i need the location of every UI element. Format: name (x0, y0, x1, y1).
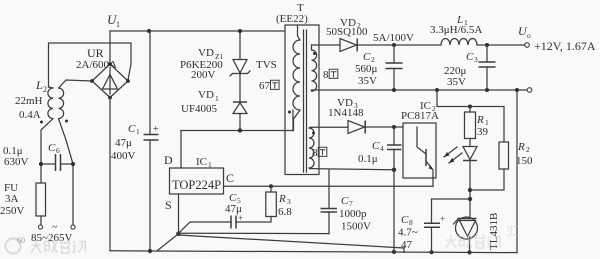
svg-text:8: 8 (323, 69, 329, 81)
svg-text:o: o (527, 31, 531, 40)
svg-text:UR: UR (87, 46, 104, 60)
svg-text:VD: VD (198, 89, 214, 101)
svg-text:IC: IC (196, 156, 207, 168)
svg-text:7: 7 (349, 199, 353, 208)
svg-text:4: 4 (380, 144, 384, 153)
svg-text:R: R (278, 193, 286, 205)
svg-text:1N4148: 1N4148 (328, 107, 364, 119)
svg-text:C: C (128, 123, 136, 135)
svg-text:67: 67 (259, 80, 271, 92)
svg-text:8: 8 (312, 147, 318, 159)
svg-text:2: 2 (43, 85, 47, 94)
svg-text:6: 6 (56, 146, 60, 155)
svg-text:1500V: 1500V (341, 221, 371, 233)
svg-text:TVS: TVS (256, 59, 277, 71)
svg-text:1: 1 (136, 127, 140, 136)
svg-text:PC817A: PC817A (401, 110, 439, 122)
svg-text:R: R (517, 141, 525, 153)
svg-text:4.7~: 4.7~ (398, 227, 418, 239)
svg-text:2: 2 (526, 145, 530, 154)
svg-text:1: 1 (215, 94, 219, 103)
svg-text:1: 1 (208, 160, 212, 169)
svg-text:5A/100V: 5A/100V (373, 32, 414, 44)
svg-text:47: 47 (401, 239, 413, 251)
svg-text:47μ: 47μ (115, 137, 132, 149)
svg-text:39: 39 (477, 126, 489, 138)
svg-text:1000p: 1000p (339, 208, 367, 220)
svg-text:3: 3 (474, 55, 478, 64)
svg-text:0.1μ: 0.1μ (358, 153, 378, 165)
svg-text:VD: VD (198, 47, 214, 59)
svg-text:+12V, 1.67A: +12V, 1.67A (534, 39, 596, 53)
svg-text:C: C (401, 214, 409, 226)
svg-text:UF4005: UF4005 (181, 103, 218, 115)
svg-text:+: + (153, 124, 159, 135)
svg-text:C: C (372, 140, 380, 152)
svg-text:TL431B: TL431B (488, 213, 500, 250)
svg-text:C: C (226, 171, 234, 185)
svg-text:C: C (363, 51, 371, 63)
svg-text:200V: 200V (191, 69, 216, 81)
svg-text:35V: 35V (358, 75, 377, 87)
svg-text:6.8: 6.8 (278, 206, 292, 218)
svg-text:0.4A: 0.4A (19, 109, 41, 121)
svg-text:R: R (476, 114, 484, 126)
svg-text:+: + (440, 214, 445, 224)
svg-text:560μ: 560μ (355, 63, 378, 75)
svg-text:S: S (165, 198, 172, 212)
svg-text:3.3μH/6.5A: 3.3μH/6.5A (430, 24, 482, 36)
svg-text:3: 3 (287, 197, 291, 206)
svg-text:3A: 3A (5, 193, 19, 205)
svg-text:250V: 250V (0, 205, 25, 217)
svg-text:TOP224P: TOP224P (172, 178, 221, 192)
svg-text:(EE22): (EE22) (276, 13, 308, 25)
svg-text:C: C (466, 51, 474, 63)
svg-text:C: C (341, 195, 349, 207)
svg-text:35V: 35V (447, 76, 466, 88)
svg-text:60: 60 (17, 236, 25, 245)
svg-text:+: + (238, 213, 243, 223)
svg-text:85~265V: 85~265V (31, 232, 72, 244)
svg-text:150: 150 (516, 155, 533, 167)
svg-text:1: 1 (116, 20, 120, 29)
svg-text:C: C (48, 142, 56, 154)
svg-text:D: D (164, 153, 173, 167)
svg-text:22mH: 22mH (15, 95, 43, 107)
svg-text:630V: 630V (4, 156, 29, 168)
svg-text:2A/600A: 2A/600A (76, 59, 117, 71)
svg-text:L: L (35, 78, 43, 92)
svg-text:50SQ100: 50SQ100 (326, 26, 368, 38)
svg-text:400V: 400V (111, 150, 136, 162)
